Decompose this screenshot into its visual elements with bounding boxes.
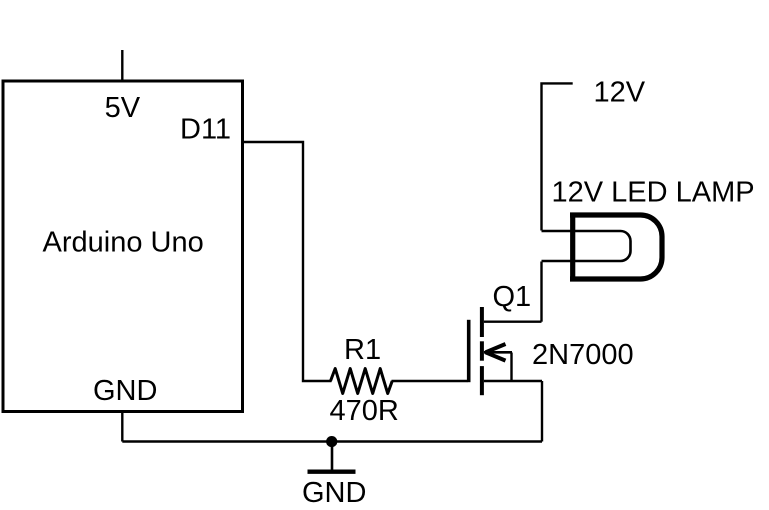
channel segment body xyxy=(480,341,484,360)
svg-text:Q1: Q1 xyxy=(493,281,532,313)
drain lead xyxy=(484,321,542,323)
svg-text:12V: 12V xyxy=(594,76,646,108)
wire source to ground rail xyxy=(541,381,543,442)
pin 5V stub xyxy=(121,50,123,81)
channel segment drain xyxy=(480,307,484,337)
svg-text:2N7000: 2N7000 xyxy=(532,339,634,371)
wire drain to lamp xyxy=(540,262,542,322)
lamp LP1 outer bulb xyxy=(570,213,662,282)
svg-text:GND: GND xyxy=(93,375,157,407)
junction dot xyxy=(326,436,337,447)
body arrow xyxy=(486,344,506,352)
wire D11 to R1 xyxy=(244,142,332,381)
svg-text:Arduino Uno: Arduino Uno xyxy=(43,227,204,259)
svg-text:R1: R1 xyxy=(344,334,381,366)
transistor Q1 xyxy=(469,307,542,395)
body to source wire xyxy=(510,353,512,382)
source lead xyxy=(484,380,542,382)
svg-text:5V: 5V xyxy=(105,92,141,124)
ground symbol xyxy=(308,442,356,472)
supply 12V flag xyxy=(542,83,573,230)
wire R1 to gate xyxy=(392,380,468,382)
svg-text:D11: D11 xyxy=(180,114,231,146)
svg-text:470R: 470R xyxy=(330,395,399,427)
gate bar xyxy=(467,320,471,382)
resistor R1 xyxy=(331,369,393,394)
svg-text:12V LED LAMP: 12V LED LAMP xyxy=(552,177,755,209)
lamp filament loop and leads xyxy=(542,231,631,261)
ground rail wire xyxy=(122,440,542,442)
pin GND stub xyxy=(121,411,123,442)
Arduino Uno module box xyxy=(3,81,243,412)
channel segment source xyxy=(480,366,484,395)
svg-text:GND: GND xyxy=(302,477,366,509)
